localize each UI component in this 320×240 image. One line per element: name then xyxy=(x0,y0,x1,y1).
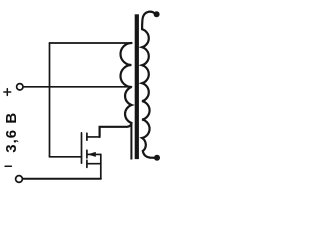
svg-text:3,6 В: 3,6 В xyxy=(3,112,20,153)
